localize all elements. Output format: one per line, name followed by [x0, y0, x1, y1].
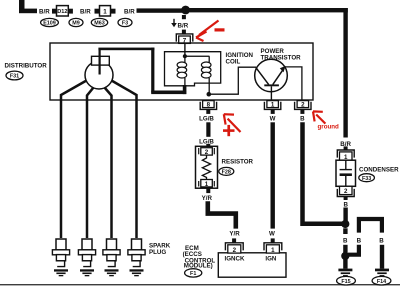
- resistor R1 zigzag: [202, 155, 210, 180]
- svg-text:ground: ground: [318, 124, 340, 131]
- spark plug 4: [128, 239, 145, 276]
- annotation red arrow at coil negative: [224, 114, 241, 132]
- svg-text:B/R: B/R: [80, 8, 91, 15]
- node junction dot top rail: [181, 6, 190, 15]
- svg-text:B: B: [300, 116, 305, 123]
- svg-text:8: 8: [207, 102, 211, 109]
- connector oval F15: [337, 276, 356, 285]
- svg-text:F1: F1: [190, 271, 196, 277]
- svg-text:1: 1: [103, 8, 107, 15]
- connector 2 (transistor B): [295, 101, 311, 114]
- svg-text:CONDENSER: CONDENSER: [359, 167, 399, 174]
- svg-text:B/R: B/R: [124, 8, 135, 15]
- node ground junction 2: [341, 252, 349, 260]
- connector oval F1: [185, 269, 202, 277]
- svg-text:DISTRIBUTOR: DISTRIBUTOR: [5, 63, 48, 70]
- svg-text:2: 2: [233, 247, 237, 254]
- svg-text:B/R: B/R: [178, 22, 189, 29]
- svg-text:B/R: B/R: [39, 8, 50, 15]
- svg-text:B: B: [357, 238, 362, 245]
- distributor rotor line: [99, 49, 101, 75]
- condenser C1 capacitor symbol: [340, 160, 352, 186]
- annotation red arrow ground: [313, 111, 325, 123]
- label ECM (ECCS CONTROL MODULE): [183, 245, 216, 270]
- wire LG/B segment: [206, 122, 210, 137]
- node ground junction 1: [341, 220, 349, 228]
- ground F15: [338, 269, 352, 277]
- svg-text:PLUG: PLUG: [149, 249, 166, 256]
- connector 2 (resistor top): [199, 148, 215, 156]
- main enclosure box: [50, 43, 313, 100]
- svg-text:1: 1: [271, 247, 275, 254]
- svg-text:B: B: [343, 201, 348, 208]
- connector oval F31: [6, 71, 23, 80]
- condenser C1 box: [336, 160, 356, 186]
- wire left drop to ground: [343, 245, 347, 269]
- wire condenser drop vertical: [343, 8, 347, 138]
- bottom frame line: [0, 284, 400, 285]
- connector 1 (resistor bottom): [199, 180, 215, 188]
- spark plug 1: [52, 239, 69, 276]
- transistor Q1 circle: [255, 59, 288, 92]
- node coil negative junction: [207, 92, 212, 97]
- svg-text:D12: D12: [57, 9, 67, 15]
- svg-text:F14: F14: [377, 279, 386, 285]
- svg-text:MODULE): MODULE): [184, 263, 213, 270]
- coil secondary winding: [201, 56, 211, 94]
- wire B/R rail to junction: [137, 8, 186, 12]
- spark plug 3: [103, 239, 120, 276]
- node coil input junction: [183, 54, 187, 58]
- svg-text:F31: F31: [10, 74, 19, 80]
- svg-text:Y/R: Y/R: [202, 195, 213, 202]
- svg-text:Y/R: Y/R: [229, 230, 240, 237]
- connector oval F33: [359, 174, 375, 182]
- connector 1 (ECM IGN): [264, 238, 282, 254]
- svg-text:1: 1: [205, 181, 209, 188]
- svg-text:IGN: IGN: [265, 255, 277, 262]
- connector oval M9: [69, 18, 83, 26]
- svg-text:F28: F28: [222, 170, 231, 176]
- svg-text:IGNCK: IGNCK: [225, 255, 245, 262]
- distributor cap tower rect: [92, 56, 110, 65]
- svg-text:M63: M63: [94, 21, 105, 27]
- distributor cap circle: [85, 61, 113, 89]
- svg-text:2: 2: [344, 188, 348, 195]
- svg-text:F15: F15: [341, 279, 350, 285]
- annotation red arrow at pin 7: [196, 21, 219, 42]
- svg-text:2: 2: [205, 149, 209, 156]
- connector 1 (body harness): [95, 6, 116, 16]
- connector 8 (coil negative): [200, 101, 216, 114]
- connector oval F28: [219, 167, 234, 175]
- connector 1 (condenser top): [337, 146, 354, 161]
- svg-text:B: B: [379, 238, 384, 245]
- connector 2 (ECM IGNCK): [225, 238, 243, 254]
- wire right drop to ground: [380, 245, 384, 269]
- svg-text:B: B: [343, 238, 348, 245]
- annotation red plus: [223, 125, 235, 136]
- connector D12: [52, 6, 73, 16]
- svg-text:RESISTOR: RESISTOR: [222, 159, 254, 166]
- ground F14: [375, 269, 389, 277]
- svg-text:W: W: [270, 116, 276, 123]
- wire stub below resistor: [206, 189, 210, 194]
- svg-text:2: 2: [301, 102, 305, 109]
- label SPARK PLUG: [149, 242, 171, 256]
- connector oval E109: [41, 18, 59, 26]
- wire plug lead 1: [61, 81, 87, 239]
- ground jumper U: [359, 219, 382, 233]
- svg-text:LG/B: LG/B: [199, 115, 214, 122]
- svg-text:F3: F3: [122, 21, 128, 27]
- svg-text:M9: M9: [72, 21, 80, 27]
- wire W transistor to ECM: [271, 122, 275, 228]
- ECM box: [218, 253, 286, 277]
- wire pin7 into coil: [184, 43, 185, 56]
- wire transistor collector to pin 2: [285, 67, 302, 101]
- ignition coil case box: [165, 52, 221, 86]
- wire Y/R resistor to ECM: [208, 201, 236, 228]
- connector oval M63: [91, 18, 107, 26]
- spark plug 2: [78, 239, 95, 276]
- svg-text:W: W: [269, 230, 275, 237]
- svg-text:COIL: COIL: [226, 58, 241, 65]
- flow arrow down: [171, 19, 177, 27]
- wire middle drop into junction 2: [348, 245, 359, 255]
- transistor Q1 symbol: [256, 66, 286, 101]
- wire B transistor down: [303, 122, 343, 223]
- wire plug lead 2: [87, 88, 94, 239]
- svg-text:E109: E109: [43, 21, 56, 27]
- connector oval F14: [372, 276, 391, 285]
- annotation red minus: [215, 28, 225, 31]
- wire coil top link: [185, 56, 210, 57]
- wire plug lead 3: [105, 88, 112, 239]
- wire top-left feed L: [19, 0, 37, 13]
- connector oval F3: [118, 18, 132, 26]
- wire coil to transistor base: [209, 67, 256, 94]
- connector 7 (ignition coil): [176, 30, 193, 45]
- wire condenser to junction: [343, 208, 347, 222]
- wire stub below junction dot: [182, 15, 186, 19]
- wire stub below junction 1: [343, 228, 347, 234]
- svg-text:F33: F33: [362, 176, 371, 182]
- wire stub into resistor: [206, 144, 210, 148]
- svg-text:1: 1: [271, 102, 275, 109]
- label IGNITION COIL: [226, 52, 254, 65]
- connector 1 (transistor W): [264, 101, 280, 114]
- resistor R1 box: [196, 146, 218, 188]
- label POWER TRANSISTOR: [261, 48, 302, 61]
- coil primary winding: [177, 56, 187, 86]
- wire B/R rail to condenser drop: [186, 8, 348, 12]
- wire plug lead 4: [112, 81, 137, 239]
- connector 2 (condenser bottom): [337, 186, 354, 200]
- wire coil HT lead (cap to coil): [98, 48, 186, 95]
